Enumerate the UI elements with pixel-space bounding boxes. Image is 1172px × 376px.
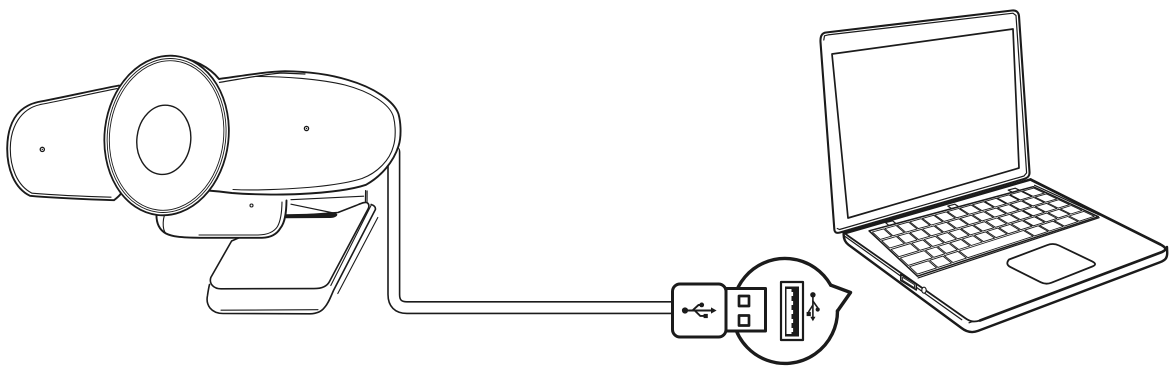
left side wall usb port bbox=[901, 274, 917, 290]
keyboard outline bbox=[869, 187, 1098, 277]
clip hinge vertical bbox=[365, 191, 367, 202]
mount knuckle bbox=[156, 201, 286, 238]
shield hole upper bbox=[739, 296, 749, 306]
usb plug body bbox=[673, 284, 727, 337]
microphone hole left bbox=[40, 147, 44, 151]
usb trident on plug bbox=[682, 303, 717, 319]
small usb trident in callout bbox=[807, 292, 820, 321]
clip top arm line bbox=[291, 196, 364, 200]
USB plug assembly bbox=[673, 258, 851, 363]
webcam main barrel bbox=[172, 56, 401, 195]
barrel top seam second line bbox=[220, 73, 306, 82]
knuckle cheek curve bbox=[163, 194, 179, 234]
laptop lid inner frame line bbox=[824, 13, 1027, 229]
webcam foot base band (thickness) bbox=[207, 205, 375, 314]
usb port icon in callout bbox=[781, 282, 803, 340]
webcam group bbox=[7, 49, 400, 314]
lens inner ring bbox=[133, 102, 194, 177]
knuckle inner contour bbox=[199, 202, 282, 235]
barrel inner rim bbox=[233, 76, 395, 189]
led hole on side bbox=[922, 287, 926, 293]
webcam foot band inner lines bbox=[221, 206, 378, 311]
keyboard row 4 bbox=[900, 206, 1082, 266]
microphone hole right bbox=[304, 126, 308, 130]
keyboard row 5 (spacebar) bbox=[910, 211, 1095, 274]
callout circle bbox=[733, 259, 838, 364]
shield hole lower bbox=[739, 316, 749, 326]
keyboard row 1 bbox=[872, 188, 1044, 239]
deck back-right thick edge bbox=[980, 180, 1165, 321]
laptop lid outer bbox=[820, 10, 1029, 232]
base side wall inner edge lines bbox=[844, 236, 1163, 323]
laptop group bbox=[820, 10, 1167, 332]
keyboard row 3 bbox=[891, 200, 1069, 257]
keyboard well edge double lines bbox=[918, 185, 1100, 278]
webcam foot top face bbox=[210, 202, 369, 288]
laptop screen bbox=[832, 29, 1019, 218]
lens plate outer ellipse bbox=[96, 49, 238, 222]
webcam left ear body bbox=[7, 86, 123, 201]
usb plug metal shield bbox=[726, 289, 766, 332]
webcam left ear inner rim bbox=[10, 89, 117, 198]
keyboard back edge bumps bbox=[886, 188, 1020, 225]
trackpad bbox=[1007, 244, 1095, 284]
clip arm upper line bbox=[291, 204, 336, 213]
laptop deck top face bbox=[845, 180, 1165, 322]
knuckle dot bbox=[250, 204, 253, 207]
clip middle arm dark bar bbox=[286, 213, 337, 218]
keyboard row 2 bbox=[882, 194, 1057, 248]
hinge line bbox=[846, 180, 1031, 234]
USB cable from webcam to plug bbox=[394, 150, 673, 308]
callout tail bbox=[800, 282, 851, 311]
laptop base bottom outline bbox=[844, 232, 1168, 333]
